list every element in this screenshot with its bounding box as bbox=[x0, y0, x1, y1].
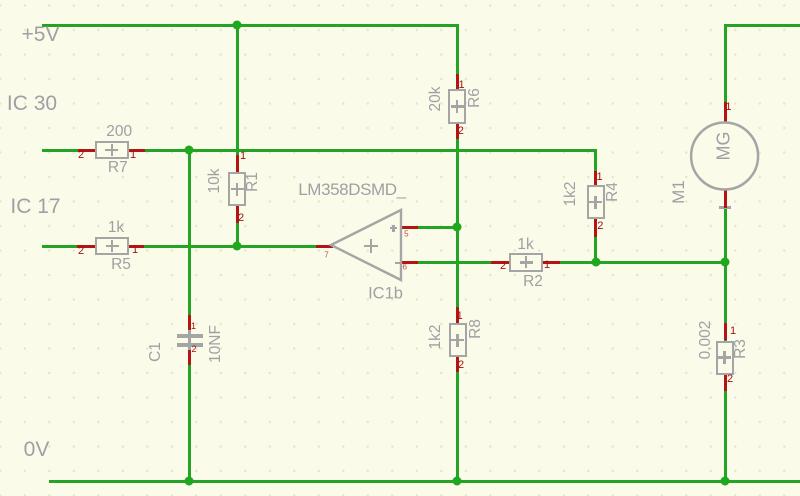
resistor R2 value 1k bbox=[491, 261, 509, 264]
junction at bottom rail and C1 column bbox=[185, 477, 194, 486]
resistor R1 value 10k bbox=[236, 155, 239, 173]
resistor R4 value 1k2 bbox=[594, 171, 597, 185]
resistor R7 value 200 bbox=[78, 149, 95, 152]
wire motor bottom vertical through R3 bbox=[724, 206, 727, 482]
junction at R5 row and R1 column bbox=[233, 242, 242, 251]
wire R6 R8 vertical column bbox=[456, 139, 459, 481]
junction at bottom rail and R3 column bbox=[721, 477, 730, 486]
junction at +5V rail and R1 column bbox=[233, 21, 242, 30]
junction at R7 row and C1 column bbox=[184, 146, 193, 155]
op-amp IC1b LM358DSMD_ bbox=[316, 245, 333, 248]
wire op-amp minus input row through R2 to motor column bbox=[418, 261, 727, 264]
wire IC 30 row horizontal (R7 row) bbox=[42, 149, 597, 152]
node +5V label bbox=[22, 23, 60, 47]
resistor R5 value 1k bbox=[77, 245, 95, 248]
wire C1 vertical column bbox=[188, 149, 191, 482]
wire +5V rail corner down to R6 bbox=[456, 24, 459, 75]
wire top right +5V rail to motor bbox=[725, 24, 800, 27]
junction at R4 bottom and R2 row bbox=[591, 258, 600, 267]
wire op-amp plus input to node bbox=[418, 226, 457, 229]
wire +5V rail horizontal bbox=[42, 24, 459, 27]
node IC 17 label bbox=[10, 195, 60, 219]
wire corner down to R4 bbox=[594, 149, 597, 171]
wire IC 17 row horizontal (R5 row to op-amp output) bbox=[42, 245, 316, 248]
junction at motor column and R2 row bbox=[721, 258, 730, 267]
resistor R8 value 1k2 bbox=[456, 307, 459, 323]
capacitor C1 value 10NF bbox=[188, 315, 191, 334]
wire vertical from +5V rail through R1 column bbox=[236, 24, 239, 247]
resistor R3 value 0.002 bbox=[724, 323, 727, 341]
wire motor top vertical bbox=[724, 24, 727, 105]
wire 0V bottom rail bbox=[49, 480, 800, 483]
junction at op-amp plus node bbox=[453, 223, 462, 232]
motor M1 MG bbox=[724, 102, 727, 124]
node IC 30 label bbox=[7, 92, 57, 116]
junction at bottom rail and R8 column bbox=[453, 477, 462, 486]
wire R4 bottom to R2 row bbox=[594, 237, 597, 262]
node 0V label bbox=[24, 438, 50, 462]
resistor R6 value 20k bbox=[456, 74, 459, 89]
